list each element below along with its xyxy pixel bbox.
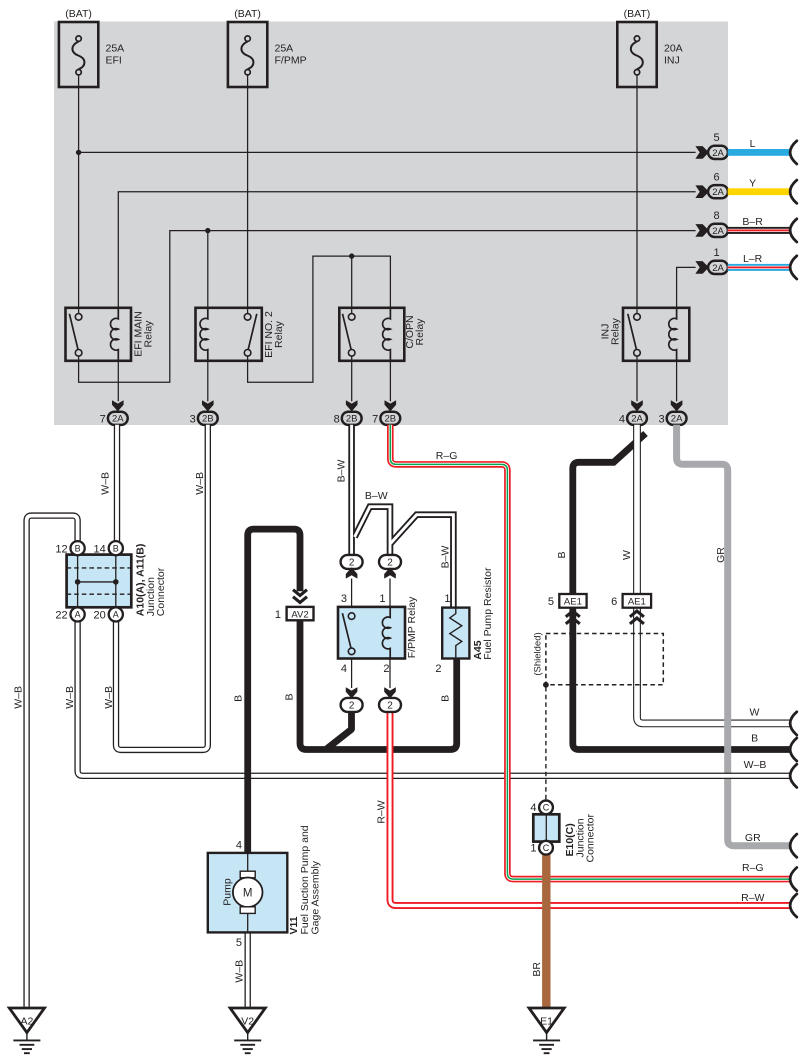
svg-text:Connector: Connector [584, 814, 596, 863]
connector oval 2 (F/PMP pin 4) [341, 698, 363, 712]
svg-text:B: B [556, 551, 568, 558]
node: junction on fuse EFI line [76, 150, 81, 155]
wire: fuse INJ drop to INJ relay switch [636, 75, 638, 314]
wire: EFI NO.2 relay coil down to connector 3(2B) [207, 361, 209, 402]
relay C/OPN coil [383, 308, 391, 361]
svg-text:2: 2 [387, 557, 393, 568]
junction connector E10(C) [539, 801, 553, 815]
connector oval 2 (F/PMP pin 3) [341, 555, 363, 569]
svg-text:INJ: INJ [664, 55, 680, 67]
connector pin 7 (2A) [112, 400, 124, 411]
svg-text:B: B [75, 544, 81, 554]
svg-text:W–B: W–B [744, 759, 767, 771]
motor M symbol [240, 871, 255, 878]
svg-text:2A: 2A [112, 414, 124, 425]
gray ECU / relay block panel [54, 22, 728, 426]
svg-text:B: B [284, 693, 296, 700]
relay INJ switch [634, 314, 641, 321]
connector pin 3 (2A) [671, 400, 683, 411]
fuse 25A EFI [59, 22, 98, 87]
node: shield drain junction [543, 682, 549, 688]
ground A2 [9, 1008, 44, 1033]
svg-text:AV2: AV2 [291, 609, 308, 620]
svg-text:7: 7 [372, 413, 378, 425]
svg-text:2A: 2A [712, 263, 724, 274]
node: junction coil tap on B-R bus [205, 228, 210, 233]
svg-text:(BAT): (BAT) [65, 8, 92, 20]
wire: fuse EFI drop to EFI MAIN relay switch [78, 75, 80, 314]
wire W from pin4(2A) to AE1-6 and W pigtail row [633, 425, 641, 594]
svg-text:R–W: R–W [741, 892, 764, 904]
svg-text:B: B [233, 695, 245, 702]
wire: C/OPN relay coil down to connector 7(2B) [389, 361, 391, 402]
svg-text:Connector: Connector [155, 567, 167, 616]
svg-text:2A: 2A [631, 414, 643, 425]
connector pin 5 (2A) with L wire [695, 146, 709, 159]
svg-text:GR: GR [715, 547, 727, 563]
pin A of A10 [71, 607, 85, 621]
svg-text:2: 2 [383, 663, 389, 675]
relay EFI NO.2 box [196, 308, 262, 361]
svg-text:Relay: Relay [273, 320, 285, 348]
svg-text:1: 1 [275, 609, 281, 621]
relay EFI NO.2 coil [200, 308, 208, 361]
relay EFI NO.2 switch [244, 314, 251, 321]
fuse 20A INJ [617, 22, 656, 87]
svg-text:A: A [113, 610, 119, 620]
svg-text:Fuel Pump Resistor: Fuel Pump Resistor [482, 567, 494, 660]
connector 5 AE1 [559, 594, 586, 608]
wire B pump riser over to AV2 [248, 529, 300, 853]
svg-text:Gage Assembly: Gage Assembly [309, 860, 321, 934]
svg-text:5: 5 [236, 937, 242, 949]
svg-text:(Shielded): (Shielded) [533, 632, 544, 675]
wire: INJ relay switch down to connector 4(2A) [636, 356, 638, 401]
svg-text:W–B: W–B [13, 686, 25, 709]
svg-text:1: 1 [714, 247, 720, 259]
svg-text:25A: 25A [275, 43, 294, 55]
wire: C/OPN relay switch top feed [351, 256, 353, 314]
svg-text:2A: 2A [712, 148, 724, 159]
svg-text:B–W: B–W [440, 546, 452, 569]
wire: C/OPN relay switch down to connector 8(2B) [351, 356, 353, 401]
svg-text:25A: 25A [106, 43, 125, 55]
svg-text:6: 6 [611, 596, 617, 608]
pin B of A10 [109, 541, 123, 555]
junction connector A10(A), A11(B) [67, 555, 132, 608]
svg-text:W: W [621, 550, 633, 560]
svg-text:V2: V2 [241, 1015, 254, 1027]
svg-text:14: 14 [94, 543, 106, 555]
connector pin 8 (2B) [346, 400, 358, 411]
relay F/PMP coil [382, 607, 390, 659]
connector pin 4 (2A) [631, 400, 643, 411]
svg-text:2: 2 [349, 700, 355, 711]
ground E1 [529, 1008, 564, 1033]
svg-text:W–B: W–B [100, 472, 112, 495]
svg-text:W–B: W–B [234, 960, 246, 983]
svg-text:7: 7 [100, 413, 106, 425]
svg-text:1: 1 [444, 593, 450, 605]
svg-text:8: 8 [714, 210, 720, 222]
wire B from pin4(2A) to AE1-5 [573, 434, 646, 595]
wire: shield drain (dashed) to E10 pin 4 [545, 687, 547, 799]
connector 6 AE1 [623, 594, 652, 608]
svg-text:(BAT): (BAT) [624, 8, 651, 20]
relay EFI MAIN coil [111, 308, 119, 361]
svg-text:(BAT): (BAT) [234, 8, 261, 20]
svg-text:B–R: B–R [742, 216, 763, 228]
connector pin 3 (2B) [202, 400, 214, 411]
connector pin 1 (2A) with L–R wire [695, 261, 709, 274]
svg-text:R–G: R–G [436, 450, 458, 462]
wire BR from E10 pin 1 to E1 ground [542, 852, 550, 1008]
svg-text:5: 5 [714, 132, 720, 144]
resistor A45 Fuel Pump Resistor [442, 608, 469, 659]
pump V11 Fuel Suction Pump and Gage Assembly [208, 853, 287, 933]
pin A of A10 [109, 607, 123, 621]
wire R-G from 7(2B) to R-G pigtail row [390, 425, 791, 879]
svg-text:EFI: EFI [106, 55, 122, 67]
connector pin 8 (2A) with B–R wire [695, 224, 709, 237]
fuse 25A F/PMP [228, 22, 267, 87]
svg-text:2B: 2B [384, 414, 396, 425]
svg-text:L–R: L–R [743, 253, 763, 265]
wire W-B group: pin12-to-A2, 7(2A)-to-pin14, pin22-to-pigtail, pin20-U-to-3(2B), pump-to-V2 [27, 516, 78, 1007]
svg-text:F/PMP Relay: F/PMP Relay [406, 596, 418, 658]
svg-text:2A: 2A [712, 187, 724, 198]
svg-text:12: 12 [55, 543, 67, 555]
pin B of A10 [71, 541, 85, 555]
svg-text:B: B [440, 695, 452, 702]
wire: EFI MAIN relay coil to ECU pin 6 (Y) [118, 192, 695, 308]
connector oval 2 (F/PMP pin 2) [379, 698, 401, 712]
svg-text:2A: 2A [671, 414, 683, 425]
svg-text:2: 2 [387, 700, 393, 711]
wire: EFI MAIN relay switch output to ECU pin 8 (B-R bus) [79, 231, 696, 383]
svg-text:BR: BR [531, 962, 543, 977]
connector oval 2 (F/PMP pin 1) [379, 555, 401, 569]
wire GR from pin3(2A) to GR pigtail row [677, 425, 792, 846]
wire: INJ relay coil down to connector 3(2A) [676, 361, 678, 402]
svg-text:Relay: Relay [610, 317, 622, 345]
relay C/OPN switch [348, 314, 355, 321]
wire: EFI NO.2 relay coil tap [207, 231, 209, 308]
svg-text:4: 4 [236, 840, 242, 852]
connector pin 7 (2B) [385, 400, 397, 411]
svg-text:3: 3 [341, 593, 347, 605]
ground V2 [230, 1008, 265, 1033]
svg-text:R–G: R–G [742, 862, 764, 874]
svg-text:20A: 20A [664, 43, 683, 55]
svg-text:20: 20 [94, 610, 106, 622]
wire B-W group: 8(2B) to F/PMP relay pin3/pin1 and to resistor [348, 425, 355, 555]
wire B below AV2 to splice bar to fuel pump resistor pin 2 [300, 620, 457, 749]
svg-text:Y: Y [749, 178, 756, 190]
wire: internal bus of junction connector [78, 581, 116, 583]
relay C/OPN box [339, 308, 404, 361]
svg-text:A: A [75, 610, 81, 620]
wire: pin3 lead [351, 579, 353, 607]
svg-text:6: 6 [714, 172, 720, 184]
svg-text:E1: E1 [540, 1015, 553, 1027]
svg-text:5: 5 [548, 596, 554, 608]
wire B branch to F/PMP relay pin 4 [327, 710, 352, 749]
wire: fuse F/PMP drop to EFI NO.2 relay switch [247, 75, 249, 314]
wire: +B bus to ECU pin 5 (L) [79, 151, 696, 153]
relay F/PMP box [338, 607, 405, 659]
svg-text:Pump: Pump [222, 878, 234, 906]
svg-text:3: 3 [190, 413, 196, 425]
svg-text:Relay: Relay [143, 320, 155, 348]
svg-text:B: B [113, 544, 119, 554]
svg-text:2A: 2A [712, 226, 724, 237]
wire R-W from F/PMP relay pin 2 to R-W pigtail row [390, 712, 791, 906]
svg-text:B–W: B–W [335, 460, 347, 483]
svg-text:B: B [751, 733, 758, 745]
svg-text:4: 4 [341, 663, 347, 675]
svg-text:1: 1 [379, 593, 385, 605]
svg-text:4: 4 [619, 413, 625, 425]
relay F/PMP switch [348, 613, 355, 620]
relay INJ box [623, 308, 689, 361]
svg-text:8: 8 [334, 413, 340, 425]
svg-text:L: L [750, 138, 756, 150]
relay INJ coil [669, 308, 677, 361]
svg-text:AE1: AE1 [628, 597, 646, 608]
svg-text:Relay: Relay [414, 318, 426, 346]
relay EFI MAIN box [66, 308, 132, 361]
svg-text:A2: A2 [20, 1015, 33, 1027]
wire: pin1 lead [389, 579, 391, 607]
svg-text:W: W [749, 707, 759, 719]
svg-text:W–B: W–B [194, 472, 206, 495]
svg-text:2B: 2B [202, 414, 214, 425]
svg-text:F/PMP: F/PMP [275, 55, 307, 67]
relay EFI MAIN switch [75, 314, 82, 321]
svg-text:R–W: R–W [375, 800, 387, 823]
wire: ECU pin 1 (L-R) to INJ relay coil [677, 267, 696, 307]
svg-text:2: 2 [349, 557, 355, 568]
svg-text:W–B: W–B [64, 686, 76, 709]
svg-text:22: 22 [55, 610, 67, 622]
svg-text:B–W: B–W [365, 490, 388, 502]
svg-text:2B: 2B [346, 414, 358, 425]
svg-text:W–B: W–B [103, 686, 115, 709]
svg-text:2: 2 [435, 663, 441, 675]
wire B from AE1-5 through shield to B pigtail row [573, 608, 792, 750]
svg-text:GR: GR [745, 832, 761, 844]
connector AV2 [293, 590, 307, 596]
svg-text:1: 1 [530, 843, 536, 855]
svg-text:AE1: AE1 [564, 597, 582, 608]
svg-text:3: 3 [658, 413, 664, 425]
wire: pin2 lead [389, 659, 391, 689]
node: junction on C/OPN feed bus [349, 253, 354, 258]
svg-text:C: C [543, 843, 550, 853]
wire: pin4 lead [351, 659, 353, 689]
connector pin 6 (2A) with Y wire [695, 185, 709, 198]
svg-text:M: M [243, 888, 253, 900]
shielded cable boundary [546, 634, 663, 685]
wire: EFI MAIN relay coil down to connector 7(2A) [117, 361, 119, 402]
wire: EFI NO.2 relay switch output to C/OPN relay feed bus [248, 256, 391, 382]
svg-text:C: C [543, 803, 550, 813]
svg-text:4: 4 [530, 802, 536, 814]
